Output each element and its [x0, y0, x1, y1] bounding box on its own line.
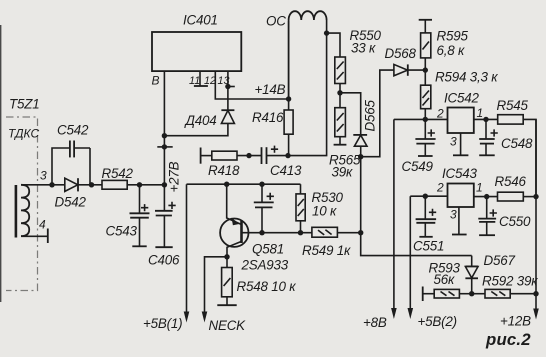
svg-text:C550: C550	[499, 214, 531, 229]
svg-text:+8В: +8В	[363, 315, 387, 330]
op-amp U1 IC542 box	[448, 108, 474, 134]
pin 11	[199, 71, 201, 86]
transformer winding	[21, 185, 29, 236]
wire +5V(2) line	[409, 196, 411, 315]
capacitor C551	[424, 196, 426, 219]
emitter wire with arrow	[227, 184, 242, 224]
svg-text:3: 3	[40, 169, 47, 183]
node R592/+12V rail	[533, 291, 538, 296]
op-amp U2 IC543 box	[448, 184, 474, 208]
transformer T core	[15, 185, 18, 238]
svg-text:C543: C543	[106, 224, 138, 239]
svg-text:OC: OC	[266, 14, 286, 29]
transistor Q1 circle	[220, 219, 248, 247]
svg-text:4: 4	[39, 218, 46, 232]
resistor R565	[339, 93, 341, 108]
+12V rail	[535, 119, 537, 315]
svg-text:Q581: Q581	[252, 242, 284, 257]
ТДКС boundary dash-dot	[6, 117, 38, 291]
node D567/R593/R592	[469, 291, 474, 296]
svg-text:D568: D568	[385, 46, 417, 61]
diode Д404	[221, 109, 234, 111]
svg-text:R546: R546	[495, 174, 527, 189]
capacitor C548	[485, 119, 487, 139]
svg-text:В: В	[152, 74, 160, 88]
resistor R542	[92, 184, 103, 186]
svg-text:R418: R418	[208, 163, 240, 178]
diode D567	[471, 256, 473, 267]
svg-text:+5В(2): +5В(2)	[418, 314, 457, 329]
svg-text:6,8 к: 6,8 к	[437, 43, 466, 58]
node D404 anode wire	[162, 133, 167, 138]
wire D565 node up to D568	[361, 70, 394, 157]
svg-text:C551: C551	[413, 239, 444, 254]
svg-text:2: 2	[436, 181, 444, 195]
svg-text:R416: R416	[252, 110, 284, 125]
resistor R550	[335, 57, 346, 84]
node R594/C549	[423, 117, 428, 122]
resistor R548	[226, 257, 228, 268]
node C548	[483, 117, 488, 122]
svg-text:ТДКС: ТДКС	[8, 127, 39, 141]
node cap rail	[259, 182, 264, 187]
svg-text:T5Z1: T5Z1	[9, 97, 39, 112]
svg-text:+27В: +27В	[167, 161, 182, 192]
svg-text:3: 3	[450, 135, 457, 149]
svg-text:D567: D567	[484, 253, 516, 268]
pin 13	[227, 71, 229, 110]
wire +5V(1)	[186, 184, 188, 318]
node D565 anode	[358, 154, 363, 159]
svg-text:+14В: +14В	[255, 82, 286, 97]
pin 3 stub IC543	[458, 207, 460, 235]
node collector	[224, 254, 229, 259]
wire winding top to D542 node	[21, 184, 65, 186]
node R542/C543	[137, 182, 142, 187]
scan edge artifact	[0, 25, 2, 302]
svg-text:1: 1	[476, 181, 483, 195]
resistor R592	[472, 293, 485, 295]
svg-text:R542: R542	[102, 166, 134, 181]
svg-text:R548 10 к: R548 10 к	[237, 279, 297, 294]
svg-text:NECK: NECK	[209, 318, 247, 333]
node tick +27V	[162, 144, 167, 149]
inductor OC	[288, 20, 290, 99]
svg-text:12: 12	[204, 75, 216, 87]
node R418/C413	[246, 153, 251, 158]
diode D568	[394, 64, 408, 75]
svg-text:39к: 39к	[332, 165, 353, 180]
node C413/R416/coil wire	[285, 153, 290, 158]
wire coil right down to C413 node	[288, 33, 327, 156]
wire +8V line	[393, 119, 395, 315]
svg-text:2: 2	[436, 107, 444, 121]
capacitor C543	[139, 185, 141, 214]
node R542 wire / +27V line	[162, 182, 167, 187]
svg-text:+5В(1): +5В(1)	[143, 316, 182, 331]
resistor R418	[200, 148, 202, 164]
collector wire	[227, 241, 242, 256]
wire collector to NECK arrow	[205, 257, 228, 319]
pin 1 wire IC543	[474, 196, 498, 198]
terminal bar pin 4	[47, 229, 49, 244]
node R530/base wire	[298, 230, 303, 235]
svg-text:R592 39к: R592 39к	[482, 274, 538, 289]
svg-text:Д404: Д404	[184, 113, 217, 128]
node winding/C542/D542	[49, 182, 54, 187]
resistor R549	[312, 227, 338, 237]
capacitor C542	[52, 148, 90, 185]
capacitor C550	[486, 197, 488, 219]
diode D565	[353, 134, 367, 136]
resistor R416	[288, 21, 290, 110]
svg-text:+12В: +12В	[500, 314, 531, 329]
svg-text:C413: C413	[270, 163, 302, 178]
svg-text:IC401: IC401	[183, 13, 218, 28]
svg-text:рис.2: рис.2	[485, 330, 531, 349]
pin 1 wire	[474, 118, 498, 120]
pin 12 / +14V rail	[215, 71, 288, 99]
svg-text:11: 11	[189, 75, 200, 87]
svg-text:IC542: IC542	[444, 91, 479, 106]
node cap/base wire	[259, 230, 264, 235]
node D568/R595/R594	[423, 67, 428, 72]
terminal bar above R595	[419, 19, 432, 21]
svg-text:10 к: 10 к	[312, 204, 337, 219]
svg-text:1: 1	[477, 106, 484, 120]
capacitor C406	[155, 210, 173, 212]
wire coil to R550	[327, 33, 340, 57]
node C550	[484, 194, 489, 199]
svg-text:IC543: IC543	[442, 166, 477, 181]
node coil right	[324, 30, 329, 35]
node +14V / R416	[286, 96, 291, 101]
svg-text:56к: 56к	[434, 272, 455, 287]
svg-text:D542: D542	[55, 195, 87, 210]
resistor R530	[300, 184, 302, 194]
svg-text:D565: D565	[363, 100, 378, 132]
capacitor C413	[261, 147, 263, 164]
resistor R546	[498, 192, 524, 201]
node R546/+12V rail	[533, 194, 538, 199]
svg-text:C542: C542	[57, 123, 89, 138]
pin 3 stub	[460, 133, 462, 155]
svg-text:R545: R545	[497, 98, 529, 113]
svg-text:R595: R595	[437, 29, 469, 44]
transistor feed rail	[187, 183, 301, 185]
node emitter rail	[224, 182, 229, 187]
resistor R594	[424, 70, 426, 85]
svg-text:C549: C549	[402, 159, 434, 174]
pin 2 wire IC543	[410, 195, 447, 197]
resistor R545	[498, 115, 524, 124]
svg-text:R549 1к: R549 1к	[302, 243, 351, 258]
capacitor C549	[424, 119, 426, 139]
node R549/D565 line	[358, 230, 363, 235]
svg-text:2SA933: 2SA933	[241, 258, 289, 273]
svg-text:C406: C406	[148, 253, 180, 268]
diode D542	[65, 178, 78, 191]
base bar	[240, 221, 243, 243]
resistor R595	[424, 20, 426, 33]
node D542/C542/R542	[89, 182, 94, 187]
wire node to D565	[340, 93, 361, 135]
capacitor at rail (base filter)	[261, 184, 263, 202]
node C551	[423, 194, 428, 199]
svg-text:3: 3	[450, 208, 457, 222]
node R550/R565/D565 branch	[337, 90, 342, 95]
resistor R593	[422, 287, 424, 302]
+27V vertical line (IC401 pin B to C406)	[163, 71, 165, 211]
IC542 pin2 wire	[394, 118, 448, 120]
wire winding bottom to terminal 4	[21, 235, 48, 237]
svg-text:R594 3,3 к: R594 3,3 к	[435, 70, 498, 85]
svg-text:33 к: 33 к	[351, 41, 376, 56]
wire D565 node down to R549 and +5V(2) row	[361, 157, 472, 256]
svg-text:C548: C548	[501, 136, 533, 151]
base wire to R549	[242, 232, 361, 234]
IC401 box	[152, 32, 241, 71]
